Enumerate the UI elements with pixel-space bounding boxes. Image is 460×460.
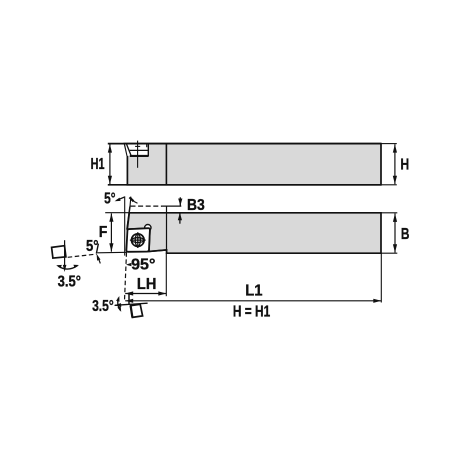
bottom edge with extensions <box>108 184 381 186</box>
tilted insert section (left detail) <box>52 246 66 258</box>
svg-text:H1: H1 <box>91 156 105 173</box>
holder body (side view) <box>125 144 382 185</box>
connector from LH extension <box>128 293 130 305</box>
95 deg leader arrow <box>126 263 132 266</box>
dashed 5 deg inclination line <box>68 254 97 257</box>
5 deg top angle arrows <box>115 197 138 203</box>
head/shank divider extension (plan view) <box>166 206 168 253</box>
L1 right extension line <box>380 254 382 303</box>
dimension LH <box>125 291 166 295</box>
insert (plan view) <box>126 228 150 252</box>
vertical axis line with down arrow <box>63 240 67 272</box>
svg-text:L1: L1 <box>245 282 262 299</box>
LH right extension line <box>165 253 167 296</box>
front edge extension above <box>129 197 132 207</box>
head/shank divider (side view) <box>165 144 167 185</box>
svg-text:H = H1: H = H1 <box>233 303 270 320</box>
dimension B3 arrows <box>178 197 183 223</box>
dimension H <box>393 144 397 184</box>
B extension lines <box>381 212 397 214</box>
dimension L1 <box>125 299 381 303</box>
svg-text:95°: 95° <box>131 256 155 273</box>
svg-text:3.5°: 3.5° <box>92 298 114 315</box>
svg-text:H: H <box>400 157 409 174</box>
svg-text:F: F <box>99 224 108 241</box>
top edge with extensions <box>108 143 381 145</box>
svg-text:3.5°: 3.5° <box>58 274 81 291</box>
tip-level extension line (bottom of F) <box>97 251 127 254</box>
dashed vertical through insert tip <box>125 252 127 300</box>
svg-text:5°: 5° <box>104 191 115 208</box>
clamp screw centerline (side view) <box>135 141 140 168</box>
svg-text:LH: LH <box>137 276 157 293</box>
insert front edge (sticking above shank) <box>127 206 130 229</box>
dimension H1 <box>108 144 112 184</box>
5 deg left angle tick and arrow <box>96 244 100 264</box>
thick left edge of section <box>131 306 133 318</box>
H extension lines <box>381 143 397 145</box>
dimension B <box>393 214 397 253</box>
dashed tip-level line <box>131 205 163 207</box>
insert pocket notch (side view) <box>125 144 148 157</box>
5-degree reference vertical line <box>124 196 126 255</box>
rotation arc arrow (bottom detail) <box>116 296 121 312</box>
pocket relief arc <box>145 225 151 231</box>
head bottom edge <box>149 250 167 252</box>
tilted insert section (bottom detail) <box>131 304 143 317</box>
dimension F <box>109 213 113 251</box>
reference line with left arrow <box>114 303 148 307</box>
svg-text:B3: B3 <box>187 197 205 214</box>
rotation arc arrow (left detail) <box>56 265 79 269</box>
clamp screw (globe symbol) <box>130 232 146 248</box>
holder body (plan view) <box>127 213 381 253</box>
F top extension line <box>105 212 129 214</box>
svg-text:B: B <box>401 226 410 243</box>
